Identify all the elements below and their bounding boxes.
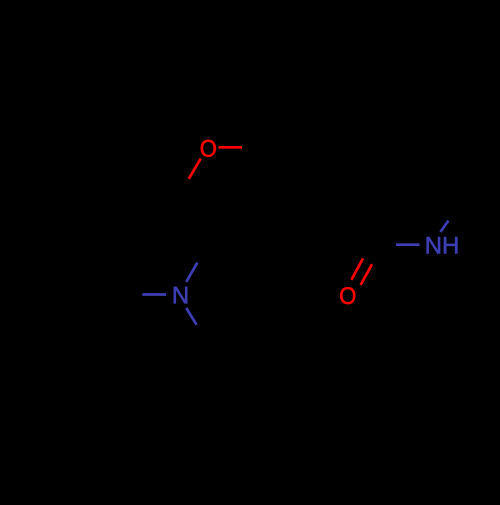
bond N1-C5 up-right half (blue) <box>186 263 197 282</box>
bond N1-C6 down-right half (blue) <box>186 308 196 325</box>
double bond O2=C7 inner line (red half) <box>351 258 363 279</box>
atom N2 nitrogen letter of amide NH <box>427 237 440 254</box>
bond O1-C2 right half (red) <box>219 146 243 149</box>
bond N1-C4 left half (blue) <box>142 293 166 296</box>
bond N2-C8 up-right half (blue) <box>440 221 448 232</box>
double bond O2=C7 outer line (red half) <box>361 264 372 285</box>
atom O2 (carbonyl oxygen) <box>340 287 355 304</box>
atom O1 (ether oxygen) <box>201 140 216 157</box>
atom N2 hydrogen letter of amide NH <box>444 237 457 254</box>
bond O1-C3 down-left half (red) <box>189 159 201 179</box>
bond C7-N2 left half (blue) <box>396 243 420 246</box>
atom N1 (tertiary amine nitrogen) <box>174 287 187 304</box>
